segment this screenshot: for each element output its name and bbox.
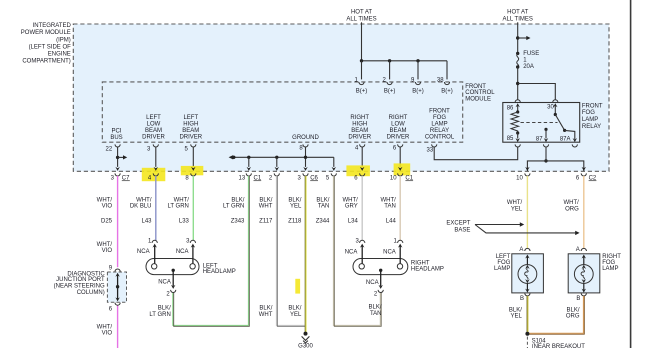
- wire WHT/GRY L34: [361, 176, 363, 241]
- wire drop to FCM pin 9: [417, 61, 419, 80]
- svg-text:PCI: PCI: [111, 128, 121, 134]
- pin 2 FCM B(+): [383, 77, 396, 94]
- label BLK/YEL fog: [509, 308, 523, 320]
- svg-text:HIGH: HIGH: [183, 121, 198, 127]
- pin 5 FCM left high beam driver: [179, 115, 202, 153]
- wire B+ distribution bus: [362, 60, 448, 62]
- label BLK/LT GRN at headlamp 2: [149, 306, 171, 318]
- left headlamp terminals: [152, 264, 157, 269]
- diagnostic junction port pin 9: [109, 265, 120, 271]
- wire drop to FCM pin 1: [361, 61, 363, 80]
- wire fuse to relay branch: [517, 67, 519, 100]
- right headlamp body: [353, 259, 408, 275]
- wire drop to FCM pin 38: [446, 61, 448, 80]
- pin 13 C1 IPM: [239, 167, 262, 182]
- wire WHT/LT GRN L33: [192, 176, 194, 241]
- left fog lamp pin B: [520, 293, 530, 302]
- pin 22 FCM PCI BUS: [106, 128, 123, 152]
- wire ground pin drop: [305, 147, 307, 167]
- svg-text:(NEAR BREAKOUT: (NEAR BREAKOUT: [532, 344, 586, 348]
- wire ground drop pin 2: [276, 157, 278, 167]
- svg-text:3: 3: [186, 239, 190, 245]
- svg-text:9: 9: [109, 265, 113, 271]
- svg-text:Z117: Z117: [259, 219, 273, 225]
- pin 6 IPM: [354, 167, 365, 182]
- wire BLK/ORG right fog ground: [527, 296, 583, 333]
- svg-text:COLUMN): COLUMN): [77, 290, 105, 296]
- junction dot with offpage arrow right: [516, 36, 519, 39]
- pin 3 FCM left low beam driver: [142, 115, 165, 153]
- svg-text:NCA: NCA: [176, 249, 189, 255]
- svg-text:COMPARTMENT): COMPARTMENT): [22, 59, 70, 65]
- svg-text:FOG: FOG: [433, 115, 446, 121]
- svg-text:WHT/: WHT/: [507, 200, 523, 206]
- svg-text:33: 33: [427, 148, 434, 154]
- svg-text:10: 10: [516, 176, 523, 182]
- svg-text:DK BLU: DK BLU: [130, 203, 152, 209]
- svg-text:LAMP: LAMP: [582, 117, 598, 123]
- svg-text:GRY: GRY: [345, 203, 358, 209]
- wire hot feed left vertical: [361, 22, 363, 61]
- svg-text:B(+): B(+): [384, 89, 396, 95]
- right fog lamp label: [602, 254, 621, 272]
- left headlamp label: [203, 263, 236, 275]
- label BLK/ORG fog: [566, 308, 580, 320]
- svg-text:2: 2: [269, 176, 273, 182]
- svg-text:2: 2: [166, 291, 170, 297]
- svg-text:FRONT: FRONT: [582, 103, 603, 109]
- pin 3 C7 IPM: [111, 167, 130, 182]
- pin 87A relay: [560, 136, 578, 147]
- svg-text:EXCEPT: EXCEPT: [446, 220, 470, 226]
- svg-text:8: 8: [185, 176, 189, 182]
- svg-text:Z343: Z343: [231, 219, 245, 225]
- svg-text:85: 85: [507, 136, 514, 142]
- svg-text:A: A: [576, 247, 580, 253]
- svg-text:JUNCTION PORT: JUNCTION PORT: [56, 277, 105, 283]
- wire fog feed split: [527, 161, 583, 171]
- svg-text:38: 38: [437, 77, 444, 83]
- svg-text:87: 87: [536, 136, 543, 142]
- svg-text:ORG: ORG: [566, 313, 580, 319]
- svg-text:FRONT: FRONT: [465, 84, 486, 90]
- label BLK/TAN Z344: [316, 198, 330, 225]
- diagnostic junction port label: [54, 272, 106, 296]
- svg-text:TAN: TAN: [318, 203, 330, 209]
- wire WHT/VIO D25 upper: [117, 176, 119, 267]
- svg-text:HEADLAMP: HEADLAMP: [203, 269, 236, 275]
- svg-text:LT GRN: LT GRN: [167, 203, 188, 209]
- label WHT/TAN L44: [380, 198, 396, 225]
- label WHT/DK BLU L43: [130, 198, 152, 225]
- svg-text:TAN: TAN: [370, 311, 382, 317]
- svg-text:LOW: LOW: [391, 121, 405, 127]
- svg-text:B(+): B(+): [441, 89, 453, 95]
- svg-text:LEFT: LEFT: [146, 115, 161, 121]
- node HOT AT ALL TIMES (right feed): [503, 9, 533, 22]
- svg-text:VIO: VIO: [102, 331, 113, 337]
- right headlamp pin 1: [383, 239, 403, 264]
- pin 8 IPM: [185, 167, 196, 182]
- svg-text:FUSE: FUSE: [523, 51, 539, 57]
- svg-text:3: 3: [111, 176, 115, 182]
- fuse F1 20A: [516, 51, 539, 70]
- wire right low beam drop: [399, 147, 401, 167]
- svg-text:87A: 87A: [560, 136, 571, 142]
- right headlamp label: [411, 260, 444, 272]
- label WHT/YEL: [507, 200, 523, 212]
- svg-text:DRIVER: DRIVER: [142, 134, 165, 140]
- pin 30 relay: [547, 100, 558, 115]
- right headlamp pin 3: [345, 239, 365, 264]
- svg-text:LEFT: LEFT: [183, 115, 198, 121]
- svg-text:3: 3: [298, 176, 302, 182]
- svg-text:TAN: TAN: [384, 203, 396, 209]
- integrated power module box (IPM): [73, 24, 609, 171]
- label WHT/VIO D25: [97, 198, 113, 337]
- left fog lamp box: [512, 254, 544, 293]
- svg-text:GROUND: GROUND: [292, 135, 319, 141]
- svg-text:VIO: VIO: [102, 203, 113, 209]
- wire drop to FCM pin 2: [389, 61, 391, 80]
- pin 8 FCM ground: [292, 135, 319, 152]
- left fog lamp bulb: [518, 255, 537, 293]
- except base arrow to right fog feed: [475, 225, 580, 236]
- svg-text:(LEFT SIDE OF: (LEFT SIDE OF: [29, 44, 72, 50]
- svg-text:BLK/: BLK/: [288, 306, 301, 312]
- svg-text:FRONT: FRONT: [429, 108, 450, 114]
- svg-text:HOT AT: HOT AT: [507, 9, 528, 15]
- pin 33 FCM front fog lamp relay control: [427, 144, 437, 153]
- node HOT AT ALL TIMES (left feed): [346, 9, 376, 22]
- FCM label: [465, 84, 495, 102]
- svg-text:FOG: FOG: [582, 110, 595, 116]
- wire relay 87 output: [545, 147, 547, 161]
- wire WHT/TAN L44: [399, 176, 401, 241]
- svg-text:BEAM: BEAM: [145, 128, 162, 134]
- front fog lamp relay label: [582, 103, 603, 130]
- svg-text:LT GRN: LT GRN: [223, 203, 244, 209]
- svg-text:ORG: ORG: [565, 206, 579, 212]
- pin 1 FCM B(+): [354, 77, 367, 94]
- svg-text:(NEAR STEERING: (NEAR STEERING: [54, 283, 105, 289]
- svg-text:LAMP: LAMP: [431, 121, 447, 127]
- svg-text:MODULE: MODULE: [465, 96, 491, 102]
- pin 9 FCM B(+): [411, 77, 424, 94]
- label BLK/YEL Z118: [288, 198, 302, 318]
- wire BLK/YEL Z118 to G300: [304, 176, 306, 334]
- right fog lamp pin A: [576, 247, 587, 253]
- svg-text:L33: L33: [179, 219, 190, 225]
- svg-text:ENGINE: ENGINE: [48, 51, 71, 57]
- svg-text:WHT: WHT: [259, 203, 273, 209]
- wire hot feed right vertical: [517, 22, 519, 53]
- svg-text:RIGHT: RIGHT: [389, 115, 408, 121]
- wire ground drop pin 5: [333, 157, 335, 167]
- wire BLK/YEL left fog ground: [526, 296, 528, 334]
- IPM label: [21, 23, 72, 65]
- wire ground drop pin 13: [248, 157, 250, 167]
- svg-text:HIGH: HIGH: [352, 121, 367, 127]
- wire right high beam drop: [361, 147, 363, 167]
- svg-text:BASE: BASE: [454, 228, 470, 234]
- left headlamp common node: [172, 269, 175, 272]
- left headlamp pin 3: [176, 239, 196, 264]
- pin 6 C2 IPM fog right: [576, 167, 597, 182]
- svg-text:LAMP: LAMP: [494, 266, 510, 272]
- wire WHT/VIO lower: [117, 305, 119, 348]
- pin 2 IPM: [269, 167, 280, 182]
- svg-text:22: 22: [106, 147, 113, 153]
- wire WHT/DK BLU L43: [155, 176, 157, 241]
- right fog lamp box: [568, 254, 600, 293]
- relay actuator dashed link: [521, 122, 558, 124]
- svg-text:6: 6: [109, 307, 113, 313]
- label BLK/LT GRN Z343: [223, 198, 245, 225]
- FCM front fog lamp relay control label: [425, 108, 455, 140]
- pin 86 relay: [507, 100, 521, 112]
- svg-text:L34: L34: [348, 219, 359, 225]
- svg-text:YEL: YEL: [290, 203, 302, 209]
- svg-text:L43: L43: [141, 219, 152, 225]
- left headlamp pin 2: [158, 270, 176, 297]
- pin 5 IPM: [326, 167, 337, 182]
- svg-text:20A: 20A: [523, 64, 534, 70]
- svg-text:YEL: YEL: [511, 206, 523, 212]
- svg-text:DRIVER: DRIVER: [179, 134, 202, 140]
- svg-text:WHT/: WHT/: [563, 200, 579, 206]
- svg-text:3: 3: [355, 239, 359, 245]
- right headlamp common node: [379, 269, 382, 272]
- junction dot relay feed: [516, 82, 519, 85]
- wire left low beam drop: [155, 147, 157, 167]
- highlight marks yellow: [142, 163, 410, 293]
- pin 4 IPM: [148, 167, 159, 182]
- wire WHT/YEL left fog feed: [526, 176, 528, 249]
- wire BLK/WHT Z117: [276, 176, 305, 326]
- svg-text:RIGHT: RIGHT: [350, 115, 369, 121]
- svg-text:CONTROL: CONTROL: [465, 90, 495, 96]
- svg-text:10: 10: [390, 176, 397, 182]
- svg-text:BUS: BUS: [110, 135, 122, 141]
- svg-text:POWER MODULE: POWER MODULE: [21, 30, 71, 36]
- front control module box (FCM): [102, 82, 462, 142]
- svg-text:BLK/: BLK/: [368, 305, 381, 311]
- pin 85 relay: [507, 133, 521, 147]
- pin 6 FCM right low beam driver: [387, 115, 410, 152]
- svg-text:5: 5: [326, 176, 330, 182]
- right headlamp pin 2: [366, 270, 383, 297]
- svg-text:G300: G300: [298, 344, 313, 348]
- svg-text:DRIVER: DRIVER: [387, 134, 410, 140]
- svg-text:YEL: YEL: [511, 313, 523, 319]
- svg-text:2: 2: [374, 291, 378, 297]
- left headlamp body: [146, 259, 199, 275]
- label WHT/LT GRN L33: [167, 198, 189, 225]
- svg-text:NCA: NCA: [158, 280, 171, 286]
- svg-text:RELAY: RELAY: [582, 124, 601, 130]
- label BLK/WHT Z117: [259, 198, 273, 318]
- svg-text:1: 1: [148, 239, 152, 245]
- pin 10 IPM fog left: [516, 167, 530, 182]
- diagnostic junction port box: [107, 272, 126, 302]
- junction dot pci with offpage arrow: [116, 156, 119, 159]
- svg-text:6: 6: [576, 176, 580, 182]
- svg-text:INTEGRATED: INTEGRATED: [33, 23, 72, 29]
- right fog lamp bulb: [574, 255, 593, 293]
- relay coil: [511, 110, 519, 134]
- svg-text:RELAY: RELAY: [430, 128, 449, 134]
- svg-text:Z118: Z118: [288, 219, 302, 225]
- diagnostic junction port internal bus: [115, 273, 119, 302]
- svg-text:BLK/: BLK/: [259, 306, 272, 312]
- right headlamp terminals: [359, 264, 364, 269]
- svg-text:NCA: NCA: [366, 280, 379, 286]
- pin 3 C6 IPM: [298, 167, 319, 182]
- svg-text:86: 86: [507, 106, 514, 112]
- svg-text:CONTROL: CONTROL: [425, 134, 455, 140]
- svg-text:NCA: NCA: [383, 249, 396, 255]
- wire pci bus drop: [117, 147, 119, 167]
- left fog lamp pin A: [519, 247, 530, 253]
- svg-text:LT GRN: LT GRN: [149, 312, 170, 318]
- svg-text:1: 1: [393, 239, 397, 245]
- svg-text:BEAM: BEAM: [182, 128, 199, 134]
- svg-text:ALL TIMES: ALL TIMES: [503, 16, 533, 22]
- svg-text:HEADLAMP: HEADLAMP: [411, 267, 444, 273]
- label WHT/ORG: [563, 200, 579, 212]
- pin 10 C1 IPM: [390, 167, 414, 182]
- svg-text:L44: L44: [386, 219, 397, 225]
- except base label: [446, 220, 470, 233]
- svg-text:BLK/: BLK/: [158, 306, 171, 312]
- label BLK/TAN at right headlamp 2: [368, 305, 381, 317]
- svg-text:13: 13: [239, 176, 246, 182]
- svg-text:B(+): B(+): [412, 89, 424, 95]
- pin 4 FCM right high beam driver: [348, 115, 371, 152]
- svg-text:A: A: [519, 247, 523, 253]
- svg-text:30: 30: [547, 105, 554, 111]
- svg-text:D25: D25: [101, 219, 113, 225]
- wire branch to pin 30: [518, 84, 556, 100]
- relay K1 front fog lamp relay box: [503, 103, 580, 143]
- svg-text:WHT/: WHT/: [97, 325, 113, 331]
- relay switch arm: [554, 113, 575, 139]
- svg-text:LAMP: LAMP: [602, 266, 618, 272]
- wire WHT/ORG right fog feed: [583, 176, 585, 249]
- svg-text:VIO: VIO: [102, 248, 113, 254]
- junction dots on B+ bus: [360, 59, 363, 62]
- svg-text:YEL: YEL: [290, 312, 302, 318]
- svg-text:LOW: LOW: [147, 121, 161, 127]
- border frame right: [630, 0, 632, 348]
- svg-text:(IPM): (IPM): [56, 37, 71, 43]
- svg-text:DRIVER: DRIVER: [348, 134, 371, 140]
- svg-text:B: B: [576, 296, 580, 302]
- wire relay 85 to FCM pin 33: [434, 147, 518, 160]
- splice S104: [525, 332, 585, 348]
- left fog lamp label: [494, 254, 511, 272]
- wire BLK/LT GRN Z343 ground path left headlamp: [173, 176, 249, 326]
- svg-text:WHT: WHT: [259, 312, 273, 318]
- pin 87 relay: [536, 128, 549, 147]
- svg-text:BEAM: BEAM: [389, 128, 406, 134]
- svg-text:HOT AT: HOT AT: [351, 9, 372, 15]
- svg-text:ALL TIMES: ALL TIMES: [346, 16, 376, 22]
- svg-text:NCA: NCA: [137, 249, 150, 255]
- label WHT/GRY L34: [342, 198, 358, 225]
- diagnostic junction port pin 6: [109, 303, 120, 313]
- pin 38 FCM B(+): [437, 77, 453, 94]
- svg-text:B: B: [520, 296, 524, 302]
- right fog lamp pin B: [576, 293, 586, 302]
- except base arrow to left fog feed: [475, 222, 524, 226]
- wire left high beam drop: [192, 147, 194, 167]
- svg-text:NCA: NCA: [345, 249, 358, 255]
- ground bus with offpage arrow left: [229, 155, 334, 159]
- left headlamp pin 1: [137, 239, 157, 264]
- svg-text:6: 6: [354, 176, 358, 182]
- svg-text:Z344: Z344: [316, 219, 330, 225]
- svg-text:RIGHT: RIGHT: [411, 260, 430, 266]
- wire BLK/TAN Z344 ground path right headlamp: [333, 176, 380, 326]
- svg-text:BEAM: BEAM: [351, 128, 368, 134]
- ground G300: [298, 332, 313, 348]
- junction dot 87 output: [544, 159, 547, 162]
- svg-text:B(+): B(+): [356, 89, 368, 95]
